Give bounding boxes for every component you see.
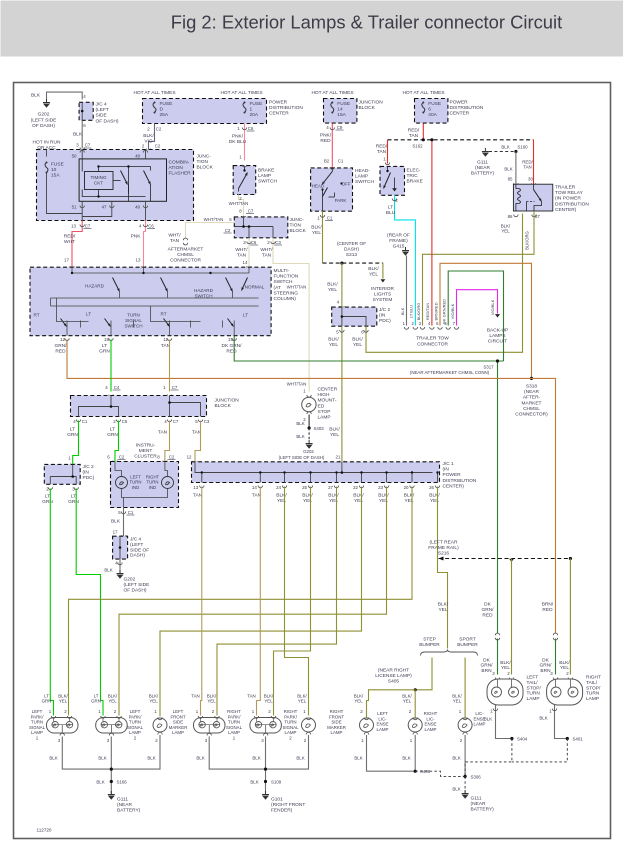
right turn indicator	[162, 477, 174, 489]
wire BLK S306 to G111	[464, 776, 466, 792]
svg-text:C3: C3	[204, 419, 210, 424]
svg-text:48: 48	[135, 154, 140, 159]
wire RED/TAN S162 to trailer connector pin4	[431, 140, 433, 326]
junction connector J/C 4 top	[79, 102, 93, 120]
ground G111 (near battery) top	[482, 148, 489, 156]
svg-text:BLK/YEL: BLK/YEL	[501, 224, 511, 234]
svg-text:BLK: BLK	[296, 756, 304, 761]
svg-text:BLK/YEL: BLK/YEL	[353, 493, 364, 504]
node S213 dashed bus (center of dash)	[323, 262, 383, 264]
svg-text:BLK/YEL: BLK/YEL	[207, 694, 217, 704]
electric brake box	[380, 166, 405, 195]
svg-text:BLK: BLK	[250, 780, 258, 785]
svg-text:BLK/YEL: BLK/YEL	[368, 266, 379, 277]
svg-text:TAN: TAN	[191, 694, 199, 699]
svg-text:TRAILER TOWCONNECTOR: TRAILER TOWCONNECTOR	[416, 336, 449, 348]
svg-text:BACK-UPLAMPSCIRCUIT: BACK-UPLAMPSCIRCUIT	[487, 328, 508, 345]
ground G111 left (near battery)	[108, 791, 115, 799]
wire WHT/TAN brake switch to junction block	[239, 195, 244, 217]
junction block box with combination flasher	[37, 150, 194, 221]
svg-text:BLK: BLK	[504, 167, 512, 172]
wire BLK/YEL J/C1 pin27 to right park lamp1 pin2	[217, 487, 337, 716]
svg-text:Fig 2: Exterior Lamps & Traile: Fig 2: Exterior Lamps & Trailer connecto…	[171, 12, 562, 33]
wire BLK license lamps to S406	[367, 735, 416, 771]
svg-text:14: 14	[243, 260, 248, 265]
wire WHT/TAN to aftermarket chmsl connector	[186, 223, 235, 239]
wire LT GRN junction block to instrument cluster pin6	[115, 421, 119, 462]
left turn indicator	[116, 477, 128, 489]
wire BLK to G202	[47, 92, 83, 101]
svg-text:C3: C3	[275, 240, 281, 245]
svg-text:BRN/RED: BRN/RED	[542, 602, 554, 613]
svg-text:BLK/YEL: BLK/YEL	[311, 225, 322, 236]
svg-text:BLK: BLK	[452, 756, 460, 761]
svg-text:BLK: BLK	[147, 756, 155, 761]
svg-text:C6: C6	[148, 224, 154, 229]
svg-text:24: 24	[276, 485, 281, 490]
wire RED/WHT flasher to MFS pin 17	[72, 221, 82, 268]
svg-text:BLK/YEL: BLK/YEL	[404, 493, 415, 504]
node S403	[308, 426, 311, 429]
svg-text:WHT/TAN: WHT/TAN	[287, 285, 307, 290]
svg-text:WHT/TAN: WHT/TAN	[204, 217, 224, 222]
wire BLK right tail to S401	[555, 705, 568, 739]
svg-text:TAN: TAN	[193, 493, 203, 499]
svg-text:S401: S401	[573, 737, 584, 742]
wire RED/TAN S162 to electric brake	[387, 140, 389, 164]
svg-text:C2: C2	[155, 144, 161, 149]
inline connector left tail feed	[495, 633, 499, 635]
svg-text:VIO/BLK: VIO/BLK	[490, 299, 495, 315]
wire BLK/YEL J/C2 pin6 to trailer tow relay pin86	[366, 214, 523, 353]
svg-text:C6: C6	[251, 240, 257, 245]
svg-text:BLK/YEL: BLK/YEL	[297, 694, 307, 704]
wire BLK/YEL J/C1 pin20 to left park lamp1 pin2	[69, 487, 413, 716]
svg-text:C2: C2	[225, 228, 231, 233]
wire LT GRN J/C2 to left park lamp 1	[50, 489, 53, 716]
flasher switch 2	[144, 171, 151, 185]
wire BLK/YEL headlamp switch to S213	[322, 211, 324, 263]
wire TAN junction block to instrument cluster pin8	[165, 421, 170, 462]
svg-text:PNK: PNK	[131, 234, 142, 240]
wire BLK/YEL S216 to left tail lamp pin2	[511, 559, 513, 675]
svg-text:B2: B2	[324, 159, 330, 164]
junction block box (wht/tan)	[234, 217, 287, 238]
svg-text:BLK: BLK	[111, 519, 121, 525]
svg-text:30: 30	[528, 177, 533, 182]
wire RED/TAN fuse 6 to S162 bus	[422, 124, 424, 140]
wire LT GRN junction block to J/C2 pin1	[73, 421, 79, 465]
wire DK GRN/RED MFS pin15 to S317 and down	[234, 336, 503, 361]
fuse 6	[422, 103, 425, 113]
ground G101 (right front fender)	[262, 791, 269, 799]
junction block middle box	[71, 396, 207, 417]
wire BLK/YEL arrow to interior lights system	[382, 263, 384, 278]
svg-text:BLK/YEL: BLK/YEL	[452, 694, 462, 704]
title bar	[1, 1, 623, 57]
svg-text:(LEFT SIDE OF DASH): (LEFT SIDE OF DASH)	[279, 455, 325, 460]
svg-text:RED/TAN: RED/TAN	[408, 128, 420, 139]
svg-text:20: 20	[404, 485, 409, 490]
svg-text:BLK/YEL: BLK/YEL	[328, 493, 339, 504]
wire BLK/YEL J/C1 pin25 to right park lamp2 pin2	[274, 487, 311, 716]
wire RED/TAN S162 to relay pin 30	[533, 140, 535, 184]
svg-text:LT: LT	[86, 312, 91, 317]
wire BLK/YEL J/C1 pin26 to bumper brace	[438, 487, 448, 649]
svg-text:C4: C4	[114, 385, 120, 390]
trailer tow connector pins	[404, 327, 408, 329]
svg-text:BLK: BLK	[31, 93, 41, 99]
ground G111 right (near battery)	[462, 790, 469, 798]
flasher internal wires	[81, 159, 83, 172]
svg-text:BLK: BLK	[501, 145, 509, 150]
svg-text:BLK: BLK	[400, 307, 405, 315]
wire LT BLU electric brake to trailer connector pin2	[395, 195, 416, 325]
svg-text:BLK/YEL: BLK/YEL	[438, 602, 449, 613]
svg-text:C7: C7	[248, 209, 254, 214]
svg-text:RT: RT	[33, 313, 39, 318]
svg-text:VIO/BLK: VIO/BLK	[450, 303, 455, 319]
svg-text:C1: C1	[327, 216, 333, 221]
svg-text:BLK/YEL: BLK/YEL	[429, 493, 440, 504]
svg-text:S162: S162	[412, 144, 423, 149]
svg-text:S317: S317	[483, 365, 494, 370]
ground G202 (S403)	[306, 440, 313, 448]
junction connector J/C 2 left box	[44, 464, 80, 484]
relay switch	[533, 184, 535, 189]
J/C2 left internals	[72, 464, 74, 476]
svg-text:BLK/YEL: BLK/YEL	[378, 493, 389, 504]
svg-text:23: 23	[378, 485, 383, 490]
wire PNK/RED fuse 14 to headlamp switch	[331, 124, 333, 168]
wire BLK dashed to S160	[489, 151, 516, 153]
svg-text:G202: G202	[303, 449, 314, 454]
svg-text:RIGHTLIC-ENSELAMP: RIGHTLIC-ENSELAMP	[424, 711, 438, 732]
svg-text:C9: C9	[337, 125, 343, 130]
wire BLK/YEL J/C1 pin24 to right marker lamp	[285, 487, 309, 716]
svg-text:RED/WHT: RED/WHT	[64, 234, 76, 245]
svg-text:C1: C1	[82, 419, 88, 424]
svg-text:49: 49	[135, 205, 140, 210]
flasher pin stubs	[81, 201, 83, 220]
wire BLK right lamps group to S109	[209, 735, 308, 769]
svg-text:BLK: BLK	[354, 756, 362, 761]
svg-text:BLK/YEL: BLK/YEL	[328, 337, 339, 348]
svg-text:BRN/RED: BRN/RED	[433, 302, 438, 320]
junction block internal bus	[234, 226, 273, 228]
svg-text:HAZARDSWITCH: HAZARDSWITCH	[194, 288, 214, 299]
svg-text:PNK/RED: PNK/RED	[320, 133, 332, 144]
svg-text:BLK: BLK	[252, 756, 260, 761]
svg-text:(NEAR AFTERMARKET CHMSL CONN): (NEAR AFTERMARKET CHMSL CONN)	[410, 370, 490, 375]
svg-text:47: 47	[102, 205, 107, 210]
svg-text:BLK/YEL: BLK/YEL	[329, 427, 340, 438]
wire BLK dashed S403 to G202	[308, 428, 310, 442]
svg-text:BLK: BLK	[296, 434, 304, 439]
trailer tow relay box	[513, 184, 552, 211]
wire TAN MFS pin11 to junction block	[169, 340, 171, 392]
wire fuse10 branch	[46, 150, 48, 157]
svg-text:HOT AT ALL TIMES: HOT AT ALL TIMES	[311, 90, 353, 96]
MFS internals	[71, 267, 73, 273]
svg-text:TAN: TAN	[158, 430, 168, 436]
svg-text:S166: S166	[117, 780, 128, 785]
svg-text:S403: S403	[314, 426, 325, 431]
svg-text:12: 12	[187, 455, 192, 460]
wire WHT/TAN junction block to MFS pin 14	[248, 238, 250, 267]
brake lamp switch contact	[239, 173, 248, 189]
right tail stop turn lamp	[553, 678, 557, 680]
svg-text:17: 17	[64, 258, 69, 263]
svg-text:50: 50	[72, 154, 77, 159]
wire BLK J/C4 to C7	[81, 121, 83, 149]
svg-text:S160: S160	[517, 145, 528, 150]
svg-text:BLK: BLK	[49, 756, 57, 761]
svg-text:17: 17	[113, 530, 118, 535]
wire BLK/YEL J/C1 pin22 to left marker lamp	[160, 487, 362, 717]
svg-text:NORMAL: NORMAL	[245, 285, 265, 290]
wire BLK license lamp to S306	[464, 735, 466, 776]
svg-text:BLK/YEL: BLK/YEL	[58, 694, 68, 704]
svg-text:BLK/YEL: BLK/YEL	[302, 493, 313, 504]
brake lamp switch box	[233, 166, 256, 195]
wire GRN/RED MFS pin12 to S318 (brown)	[67, 340, 532, 379]
svg-text:S306: S306	[471, 775, 482, 780]
svg-text:C5: C5	[122, 419, 128, 424]
power distribution center box (fuse 6)	[415, 99, 448, 124]
svg-text:BLK: BLK	[452, 787, 460, 792]
svg-text:HOT AT ALL TIMES: HOT AT ALL TIMES	[402, 90, 444, 96]
svg-text:22: 22	[353, 485, 358, 490]
node S306 dashed links	[415, 771, 465, 776]
junction connector J/C 2 (in PDC)	[332, 307, 377, 326]
svg-text:51: 51	[72, 205, 77, 210]
headlamp switch box	[311, 168, 353, 211]
fuse D	[153, 103, 156, 113]
svg-text:85: 85	[508, 177, 513, 182]
fuse 10	[45, 163, 48, 173]
aftermarket chmsl connector	[183, 238, 187, 240]
relay coil	[518, 189, 521, 204]
svg-text:GRN/RED: GRN/RED	[55, 343, 68, 354]
svg-text:BLK: BLK	[402, 756, 410, 761]
wire BLK J/C4 to ground G202	[119, 559, 121, 572]
svg-text:S109: S109	[271, 780, 282, 785]
flasher switch 1	[121, 171, 128, 185]
svg-text:BLK: BLK	[96, 780, 104, 785]
svg-text:PARK: PARK	[335, 198, 347, 203]
J/C2 internal wires	[341, 307, 343, 326]
svg-text:HOT AT ALL TIMES: HOT AT ALL TIMES	[220, 90, 262, 96]
svg-text:BLK/YEL: BLK/YEL	[264, 694, 274, 704]
multi-function switch box	[30, 267, 271, 336]
left tail stop turn lamp	[495, 678, 499, 680]
svg-text:BLK: BLK	[104, 568, 112, 573]
fuse 1	[243, 103, 246, 113]
svg-text:13: 13	[193, 485, 198, 490]
wire BLK/YEL J/C2 pin5 to J/C1 pin21	[341, 326, 343, 462]
svg-text:BLK/YEL: BLK/YEL	[500, 660, 511, 671]
inline connector right tail feed	[553, 633, 557, 635]
ground G202 (left side of dash)	[43, 99, 50, 107]
svg-text:C7: C7	[85, 224, 91, 229]
svg-text:BLK: BLK	[73, 132, 83, 138]
svg-text:INTERIORLIGHTSSYSTEM: INTERIORLIGHTSSYSTEM	[371, 286, 394, 303]
svg-text:BLK: BLK	[539, 716, 547, 721]
svg-text:25: 25	[302, 485, 307, 490]
svg-text:S404: S404	[517, 737, 528, 742]
svg-text:RED/TAN: RED/TAN	[376, 144, 388, 155]
wire BLK stop lamp to S403	[308, 415, 310, 429]
wire BLK/YEL sport bumper branch	[464, 658, 466, 718]
svg-text:C7: C7	[85, 143, 91, 148]
svg-text:OFF: OFF	[342, 182, 351, 187]
bumper brace	[421, 650, 478, 656]
wire BLK/YEL license lamp distribution	[367, 690, 416, 718]
wire TAN junction block to J/C1 pin12	[195, 421, 201, 462]
wire LT GRN J/C2 to left park lamp 2	[76, 489, 103, 716]
svg-text:LT: LT	[243, 313, 248, 318]
svg-text:BLK: BLK	[98, 756, 106, 761]
wire TAN J/C1 pin14 to right park turn lamp2	[257, 487, 261, 716]
electric brake contact	[384, 173, 391, 189]
wire BLK/YEL J/C1 pin23 to left park lamp2 pin2	[119, 487, 387, 716]
wire VIO/BLK trailer connector pin7 to back-up lamps	[457, 290, 498, 326]
junction block box (fuse 14)	[324, 99, 357, 124]
svg-text:TAN: TAN	[247, 694, 255, 699]
svg-text:C7: C7	[173, 419, 179, 424]
svg-text:BLK/YEL: BLK/YEL	[276, 493, 287, 504]
svg-text:BLK/YEL: BLK/YEL	[354, 694, 364, 704]
svg-text:WHT/TAN: WHT/TAN	[229, 201, 249, 206]
svg-text:BLK/YEL: BLK/YEL	[559, 660, 570, 671]
svg-text:RED/TAN: RED/TAN	[425, 303, 430, 320]
wire BLK instrument cluster to J/C4	[123, 508, 125, 537]
svg-text:13: 13	[71, 224, 76, 229]
svg-text:C6: C6	[248, 126, 254, 131]
wire BLK/YEL S213 to J/C2	[341, 263, 343, 307]
svg-text:14: 14	[252, 485, 257, 490]
wire BRN/RED MFS pin12 junction S318	[530, 377, 533, 380]
svg-text:HAZARD: HAZARD	[85, 284, 105, 289]
ground G202 lower (left side of dash)	[117, 570, 124, 578]
svg-text:HOT AT ALL TIMES: HOT AT ALL TIMES	[133, 90, 175, 96]
J/C1 internal bus	[200, 472, 433, 474]
svg-text:C1: C1	[338, 159, 344, 164]
wire BLK/ORG relay pin87 to trailer connector pin3	[423, 211, 535, 326]
wire BLK/YEL S216 to right tail lamp pin2	[569, 559, 571, 675]
svg-text:WHT/TAN: WHT/TAN	[287, 382, 307, 387]
svg-text:C7: C7	[172, 385, 178, 390]
svg-text:BLK: BLK	[296, 421, 304, 426]
wire BLK/YEL step bumper branch	[415, 658, 432, 690]
wire BLK/VIO fuse D to flasher pin 48	[149, 124, 155, 150]
svg-text:C1: C1	[128, 510, 134, 515]
svg-text:BLK: BLK	[196, 756, 204, 761]
svg-text:86: 86	[508, 214, 513, 219]
wire PNK flasher to MFS pin 13	[144, 221, 146, 268]
combination flasher inner box	[79, 159, 166, 201]
svg-text:RIGHTTAIL/STOP/TURNLAMP: RIGHTTAIL/STOP/TURNLAMP	[586, 675, 601, 703]
svg-text:13: 13	[136, 258, 141, 263]
svg-text:C2: C2	[169, 455, 175, 460]
svg-text:BLK/YEL: BLK/YEL	[327, 282, 338, 293]
wire BRN/RED trailer connector pin6 to S318	[440, 263, 532, 378]
wire TAN J/C1 pin13 to right park turn lamp1	[201, 487, 202, 716]
svg-text:BLK/YEL: BLK/YEL	[149, 694, 159, 704]
svg-text:RT: RT	[160, 312, 166, 317]
svg-text:112720: 112720	[37, 828, 52, 833]
svg-text:BLK/YEL: BLK/YEL	[108, 694, 118, 704]
svg-text:BLK/ORG: BLK/ORG	[416, 303, 421, 321]
wire BLK G415 to trailer connector pin1	[406, 256, 408, 326]
wire BLK left tail to S404	[496, 705, 512, 739]
wire WHT/TAN junction block to center stop lamp	[273, 238, 309, 392]
node S162 dashed bus	[388, 139, 534, 141]
wire BLK S160 to relay pin 85	[515, 152, 517, 185]
junction block middle internals	[79, 396, 112, 417]
svg-text:LEFTLIC-ENSELAMP: LEFTLIC-ENSELAMP	[377, 711, 389, 732]
wire PNK/DK BLU fuse 1 to brake lamp switch	[244, 124, 246, 161]
junction connector J/C 4 left box	[113, 536, 128, 559]
instrument cluster internal wires	[115, 462, 122, 477]
timing ckt box	[85, 172, 114, 190]
wire DK GRN/RED trailer connector pin5 to S317	[448, 271, 503, 361]
svg-text:C2: C2	[156, 127, 162, 132]
svg-text:26: 26	[429, 485, 434, 490]
power distribution center box (fuse D, fuse 1)	[143, 99, 267, 124]
svg-text:21: 21	[336, 455, 341, 460]
svg-text:27: 27	[328, 485, 333, 490]
svg-text:LT BLU: LT BLU	[409, 305, 414, 318]
junction connector J/C 1 box	[192, 462, 440, 483]
wire LT GRN MFS pin18 to junction block	[110, 340, 112, 392]
wire BLK left lamps group to S166	[62, 735, 160, 769]
svg-text:C2: C2	[119, 455, 125, 460]
MFS lower contacts	[66, 321, 68, 328]
fuse 14	[331, 103, 334, 113]
svg-text:BLK/YEL: BLK/YEL	[352, 337, 363, 348]
svg-text:BLK/YEL: BLK/YEL	[402, 694, 412, 704]
svg-text:BLK/ORG: BLK/ORG	[525, 231, 530, 250]
svg-text:SPORTBUMPER: SPORTBUMPER	[457, 637, 478, 649]
